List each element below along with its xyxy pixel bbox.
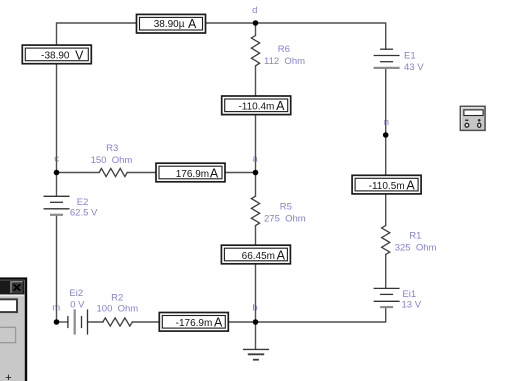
svg-text:-38.90: -38.90	[41, 51, 70, 62]
svg-text:A: A	[276, 99, 285, 113]
svg-text:V: V	[75, 48, 84, 62]
svg-text:62.5 V: 62.5 V	[70, 207, 98, 218]
svg-text:A: A	[210, 166, 219, 180]
svg-text:275 Ohm: 275 Ohm	[264, 214, 306, 225]
svg-text:38.90µ: 38.90µ	[154, 19, 185, 30]
svg-text:R5: R5	[280, 202, 292, 213]
svg-text:A: A	[214, 316, 223, 330]
svg-text:A: A	[188, 17, 197, 31]
svg-text:R1: R1	[409, 231, 421, 242]
svg-text:43 V: 43 V	[404, 62, 424, 73]
svg-text:325 Ohm: 325 Ohm	[395, 242, 437, 253]
svg-text:A: A	[406, 179, 415, 193]
svg-text:66.45m: 66.45m	[242, 251, 275, 262]
svg-text:-110.4m: -110.4m	[238, 102, 274, 113]
svg-text:100 Ohm: 100 Ohm	[97, 304, 139, 315]
svg-text:+: +	[5, 372, 11, 381]
svg-text:-176.9m: -176.9m	[176, 318, 213, 329]
svg-text:13 V: 13 V	[402, 299, 422, 310]
svg-text:R3: R3	[106, 143, 118, 154]
svg-text:R2: R2	[111, 292, 123, 303]
svg-text:A: A	[277, 248, 286, 262]
svg-text:150 Ohm: 150 Ohm	[91, 155, 133, 166]
svg-text:176.9m: 176.9m	[176, 169, 209, 180]
svg-text:-110.5m: -110.5m	[369, 181, 405, 192]
svg-text:Ei2: Ei2	[69, 288, 83, 299]
svg-text:R6: R6	[278, 44, 290, 55]
svg-text:0 V: 0 V	[70, 299, 85, 310]
svg-text:d: d	[252, 5, 257, 16]
svg-text:n: n	[384, 117, 389, 128]
svg-text:E1: E1	[404, 50, 416, 61]
svg-text:112 Ohm: 112 Ohm	[264, 56, 305, 67]
